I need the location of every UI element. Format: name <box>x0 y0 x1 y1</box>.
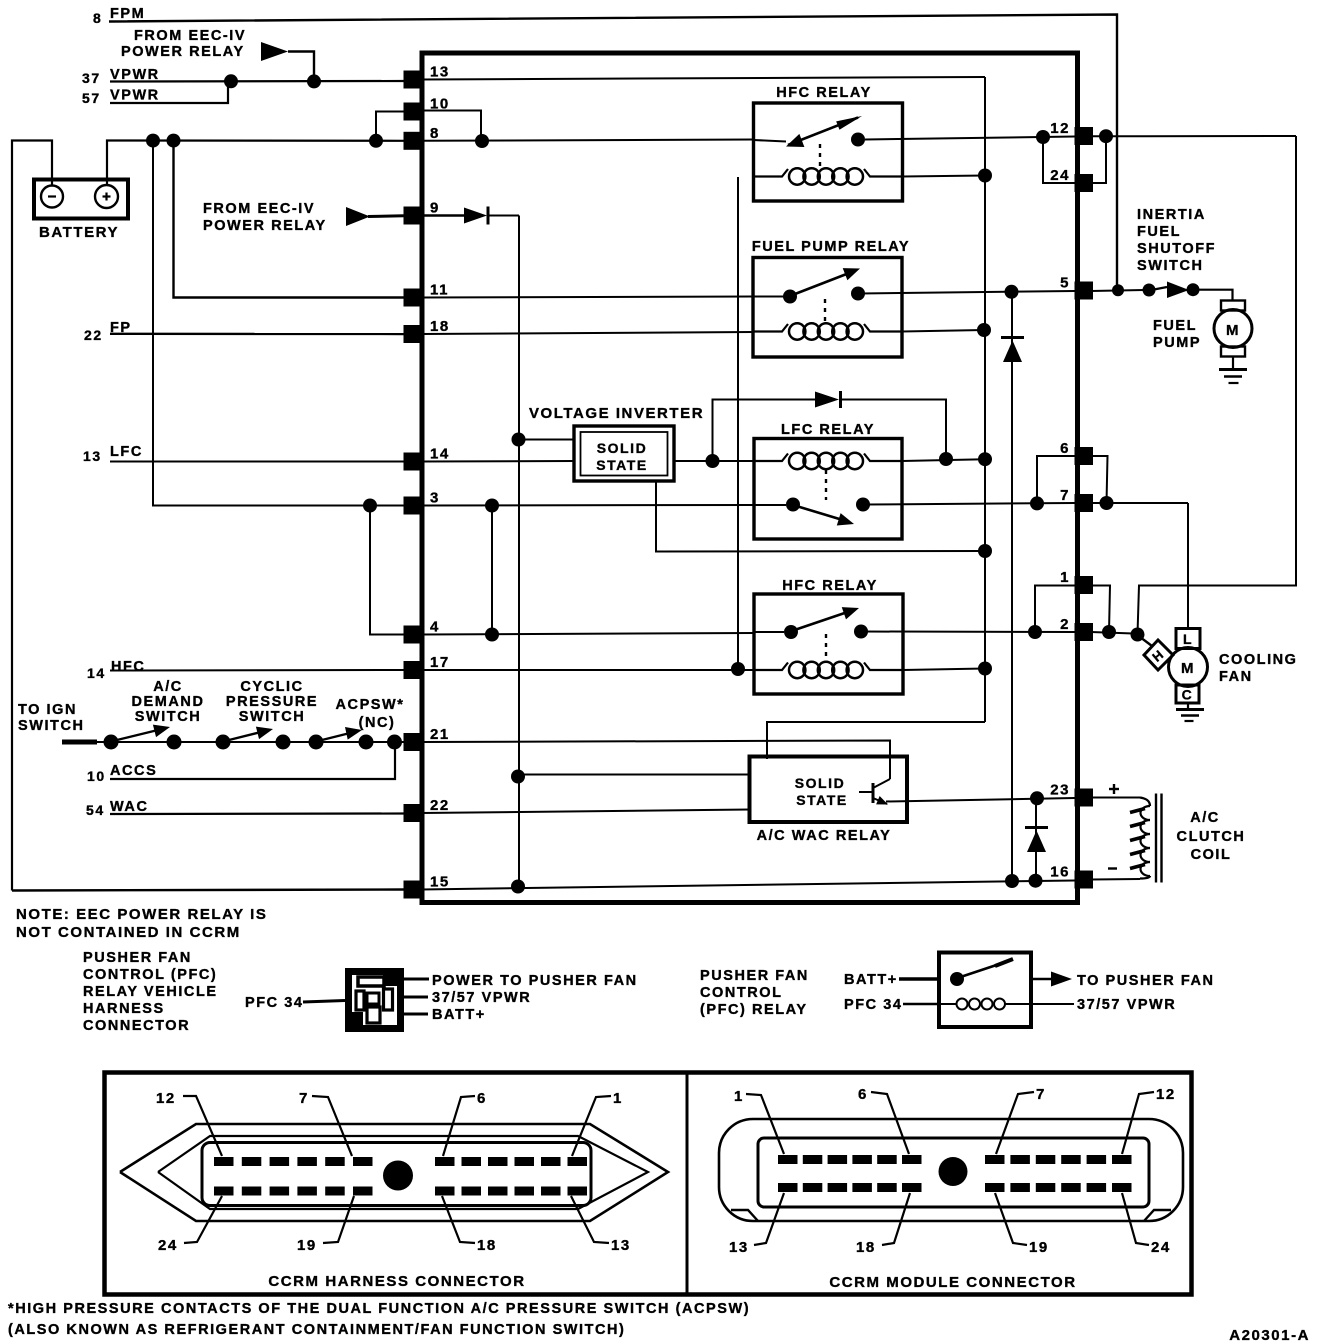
junction pin4 inside <box>485 628 499 642</box>
wire battery ground return to pin 15 <box>12 890 404 891</box>
diode CR4 (pin5 clamp) <box>1011 292 1013 881</box>
junction pin8 wire / pin10 staple <box>475 134 489 148</box>
wire pin10 staple (inside) <box>421 111 481 142</box>
pin 8 (CCRM left) <box>404 132 423 150</box>
junction pin17 / HFC coil 1 feed <box>731 662 745 676</box>
wire pin12 battery feed loop <box>1091 135 1296 137</box>
wire pin15 to pin16 ground rail <box>421 881 1075 890</box>
wire FPM <box>109 15 1117 290</box>
relay K2 switch <box>753 296 786 298</box>
pin 4 (CCRM left) <box>404 626 423 644</box>
relay K4 HFC RELAY box <box>754 594 903 694</box>
wire pin12-pin24 staple (outside) <box>1092 136 1106 183</box>
wire inverter upper input <box>519 439 575 441</box>
svg-text:(PFC) RELAY: (PFC) RELAY <box>700 1002 808 1018</box>
wire pin11 feed <box>174 141 405 298</box>
svg-text:SOLID: SOLID <box>597 440 648 456</box>
svg-text:BATT+: BATT+ <box>432 1007 486 1023</box>
wire pin17 to HFC relay coils <box>421 669 754 671</box>
svg-text:DEMAND: DEMAND <box>132 694 205 710</box>
svg-text:FUEL PUMP RELAY: FUEL PUMP RELAY <box>752 239 910 255</box>
relay K4 coil <box>754 663 788 671</box>
relay K1 coil <box>754 169 789 177</box>
connector J2 CCRM harness connector body <box>120 1124 668 1221</box>
wire pin1-pin2 staple (inside) <box>1035 586 1075 633</box>
svg-text:1: 1 <box>1060 569 1070 586</box>
svg-text:PRESSURE: PRESSURE <box>226 694 318 710</box>
svg-text:STATE: STATE <box>596 457 648 473</box>
relay K3 LFC RELAY box <box>754 439 902 540</box>
svg-text:FROM EEC-IV: FROM EEC-IV <box>134 28 246 44</box>
junction bus / pin10 staple <box>369 134 383 148</box>
svg-text:NOTE: EEC POWER RELAY IS: NOTE: EEC POWER RELAY IS <box>16 906 267 923</box>
wire pin21 to WAC relay gate <box>421 741 890 780</box>
svg-text:CONTROL: CONTROL <box>700 985 783 1001</box>
svg-text:C: C <box>1182 687 1194 703</box>
wire K3 switch in <box>754 504 786 506</box>
node solid-state feed vertical (pin 9 diode output) <box>518 216 520 887</box>
svg-text:CONNECTOR: CONNECTOR <box>83 1018 190 1034</box>
svg-text:17: 17 <box>430 654 450 671</box>
svg-text:HFC RELAY: HFC RELAY <box>776 85 872 101</box>
svg-text:24: 24 <box>1151 1239 1171 1256</box>
relay K3 coil <box>754 454 788 462</box>
svg-text:PFC 34: PFC 34 <box>844 997 902 1013</box>
svg-text:WAC: WAC <box>110 799 148 815</box>
svg-text:CYCLIC: CYCLIC <box>240 679 303 695</box>
pin 21 (CCRM left) <box>404 733 423 751</box>
pin 3 (CCRM left) <box>404 497 423 515</box>
svg-text:1: 1 <box>613 1090 623 1107</box>
svg-text:NOT CONTAINED IN CCRM: NOT CONTAINED IN CCRM <box>16 924 241 941</box>
diode CR1 (pin 9) <box>421 214 464 216</box>
svg-text:7: 7 <box>1036 1086 1046 1103</box>
svg-text:15: 15 <box>430 874 450 891</box>
pin 12 (CCRM right) <box>1075 127 1094 145</box>
wire to ign switch stub <box>62 740 97 745</box>
junction VPWR / EEC-IV relay <box>307 74 321 88</box>
svg-text:10: 10 <box>87 768 106 784</box>
wire coil common to WAC area <box>767 722 985 759</box>
wire to pusher fan <box>1031 978 1051 981</box>
junction inverter feed <box>512 433 526 447</box>
wire pin5 to inertia switch <box>1091 290 1146 291</box>
svg-text:SOLID: SOLID <box>795 775 846 791</box>
svg-text:12: 12 <box>1156 1086 1176 1103</box>
svg-text:(NC): (NC) <box>359 715 396 731</box>
svg-text:7: 7 <box>299 1090 309 1107</box>
wire inverter bottom output <box>656 481 985 552</box>
svg-text:37/57 VPWR: 37/57 VPWR <box>1077 997 1176 1013</box>
svg-text:9: 9 <box>430 200 440 217</box>
svg-text:FAN: FAN <box>1219 669 1253 685</box>
svg-text:FUEL: FUEL <box>1153 318 1197 334</box>
svg-text:HFC RELAY: HFC RELAY <box>782 578 878 594</box>
svg-text:22: 22 <box>84 327 103 343</box>
svg-text:6: 6 <box>477 1090 487 1107</box>
wire K1 coil to common <box>903 176 986 177</box>
junction bus / pin3 feed <box>146 134 160 148</box>
relay K2 coil <box>753 324 788 332</box>
svg-text:54: 54 <box>86 802 105 818</box>
wire 37/57 VPWR (harness) <box>403 996 428 999</box>
pin 14 (CCRM left) <box>404 453 423 471</box>
svg-text:A/C WAC RELAY: A/C WAC RELAY <box>757 828 892 844</box>
svg-text:4: 4 <box>430 619 440 636</box>
motor M1 FUEL PUMP <box>1221 301 1245 311</box>
relay K6 PFC relay box <box>939 953 1031 1028</box>
junction ground rail / diode CR5 <box>1029 874 1043 888</box>
wire K2 switch out to pin 5 <box>860 291 1075 294</box>
svg-text:LFC RELAY: LFC RELAY <box>781 422 875 438</box>
junction K4 coil / common <box>978 662 992 676</box>
svg-text:POWER RELAY: POWER RELAY <box>203 218 327 234</box>
connector detail divider <box>686 1073 689 1295</box>
wire pin4 feed <box>370 506 404 635</box>
pin 6 (CCRM right) <box>1075 447 1094 465</box>
pin 22 (CCRM left) <box>404 804 423 822</box>
pin 2 (CCRM right) <box>1075 623 1094 641</box>
relay K1 switch <box>754 140 787 142</box>
pin 13 (CCRM left) <box>404 71 423 89</box>
svg-text:14: 14 <box>87 665 106 681</box>
svg-text:8: 8 <box>93 10 102 26</box>
svg-text:13: 13 <box>729 1239 749 1256</box>
wire K4 coil to common <box>903 669 985 671</box>
wire pin12-pin24 staple (inside) <box>1043 137 1075 183</box>
junction K2 coil / common <box>977 323 991 337</box>
diode CR2 (across LFC relay coil) <box>713 400 816 462</box>
svg-text:2: 2 <box>1060 616 1070 633</box>
svg-text:CONTROL (PFC): CONTROL (PFC) <box>83 967 217 983</box>
svg-text:SWITCH: SWITCH <box>135 709 202 725</box>
junction FPM / pin5 wire <box>1112 284 1124 296</box>
svg-text:7: 7 <box>1060 487 1070 504</box>
wire pin18 to fuel pump relay coil <box>421 332 753 334</box>
svg-text:PUSHER FAN: PUSHER FAN <box>700 968 809 984</box>
connector detail outer box <box>105 1073 1192 1295</box>
pin 1 (CCRM right) <box>1075 576 1094 594</box>
wire 37/57 VPWR (relay) <box>1031 1003 1074 1005</box>
svg-text:22: 22 <box>430 797 450 814</box>
junction pin2 inside <box>1028 625 1042 639</box>
wire pin3-pin4 bridge (inside) <box>491 506 493 635</box>
wire pin3 feed <box>153 141 404 506</box>
battery B1 <box>34 180 128 219</box>
svg-text:6: 6 <box>858 1086 868 1103</box>
svg-text:14: 14 <box>430 446 450 463</box>
junction inverter output / diode branch <box>706 454 720 468</box>
wire pin6-pin7 staple (outside) <box>1091 456 1108 503</box>
wire pin10 staple (outside) <box>376 112 404 141</box>
connector J3 pins row B <box>778 1183 798 1192</box>
wire K2 coil to common <box>902 330 984 332</box>
svg-text:STATE: STATE <box>796 792 848 808</box>
junction ground rail / diode CR4 <box>1005 874 1019 888</box>
svg-text:SWITCH: SWITCH <box>239 709 306 725</box>
svg-text:18: 18 <box>477 1237 497 1254</box>
wire WAC output to pin 23 <box>886 798 1075 802</box>
connector J2 pins row A <box>214 1157 234 1166</box>
svg-text:ACCS: ACCS <box>110 763 157 779</box>
junction pin7 outside <box>1100 496 1114 510</box>
svg-text:HARNESS: HARNESS <box>83 1001 165 1017</box>
svg-text:21: 21 <box>430 726 450 743</box>
connector J3 CCRM module connector body <box>719 1119 1183 1221</box>
svg-text:PUSHER FAN: PUSHER FAN <box>83 950 192 966</box>
svg-text:19: 19 <box>1029 1239 1049 1256</box>
pin 7 (CCRM right) <box>1075 494 1094 512</box>
ground (fuel pump) <box>1232 357 1234 370</box>
junction diode CR2 / LFC coil output <box>939 452 953 466</box>
svg-text:37: 37 <box>82 70 101 86</box>
wire K3 switch out to pin 7 <box>866 503 1075 505</box>
svg-text:24: 24 <box>1050 167 1070 184</box>
svg-text:3: 3 <box>430 490 440 507</box>
battery B+ bus wire <box>12 141 52 891</box>
junction pin3/pin4 inside <box>485 499 499 513</box>
svg-text:TO PUSHER FAN: TO PUSHER FAN <box>1077 973 1215 989</box>
svg-text:23: 23 <box>1050 782 1070 799</box>
svg-text:18: 18 <box>856 1239 876 1256</box>
svg-text:SHUTOFF: SHUTOFF <box>1137 241 1216 257</box>
svg-text:M: M <box>1226 322 1240 339</box>
svg-text:ACPSW*: ACPSW* <box>336 697 405 713</box>
svg-text:CLUTCH: CLUTCH <box>1177 829 1246 845</box>
svg-text:RELAY VEHICLE: RELAY VEHICLE <box>83 984 218 1000</box>
wire solid-state feed to WAC relay <box>518 774 750 776</box>
junction WAC feed <box>511 770 525 784</box>
junction pin3/pin4 feed <box>363 499 377 513</box>
svg-text:12: 12 <box>1050 120 1070 137</box>
pin 18 (CCRM left) <box>404 325 423 343</box>
svg-text:PUMP: PUMP <box>1153 335 1201 351</box>
svg-text:24: 24 <box>158 1237 178 1254</box>
arrow from EEC-IV power relay (pin9) <box>346 207 370 226</box>
svg-text:VOLTAGE INVERTER: VOLTAGE INVERTER <box>529 405 704 422</box>
wire HFC coil 1 feed vertical <box>737 177 739 669</box>
svg-text:A/C: A/C <box>153 679 183 695</box>
junction ACCS / pin21 <box>387 735 402 750</box>
pin 9 (CCRM left) <box>404 207 423 225</box>
svg-text:13: 13 <box>611 1237 631 1254</box>
pin 10 (CCRM left) <box>404 103 423 121</box>
svg-text:A/C: A/C <box>1190 810 1220 826</box>
junction pin5 wire / diode CR4 <box>1005 285 1019 299</box>
connector J1 PFC vehicle harness connector <box>345 968 404 1032</box>
wire battery loop down right side <box>1138 136 1297 634</box>
inertia fuel shutoff switch S4 <box>1143 284 1156 297</box>
svg-text:SWITCH: SWITCH <box>1137 258 1204 274</box>
wire pin22 to WAC relay <box>421 810 750 814</box>
svg-text:POWER RELAY: POWER RELAY <box>121 44 245 60</box>
wire pin13 to relay coil common vertical <box>421 77 985 80</box>
relay K5 A/C WAC RELAY (solid state) box <box>750 757 908 823</box>
wire from EEC-IV arrow to VPWR bus <box>288 52 314 82</box>
svg-text:BATTERY: BATTERY <box>39 224 119 241</box>
svg-text:11: 11 <box>430 282 449 299</box>
svg-text:13: 13 <box>430 64 450 81</box>
svg-text:COOLING: COOLING <box>1219 652 1298 668</box>
svg-text:6: 6 <box>1060 440 1070 457</box>
connector J2 pins row B <box>214 1187 234 1196</box>
wire inverter output to LFC coil <box>674 460 754 462</box>
pin 24 (CCRM right) <box>1075 174 1094 192</box>
svg-text:57: 57 <box>82 90 101 106</box>
motor M2 cooling fan <box>1144 640 1173 670</box>
pin 23 (CCRM right) <box>1075 789 1094 807</box>
svg-text:FUEL: FUEL <box>1137 224 1181 240</box>
svg-text:8: 8 <box>430 125 440 142</box>
wire K1 switch out to pin 12 <box>865 137 1075 140</box>
CCRM module box <box>422 53 1078 903</box>
wire power to pusher fan <box>403 978 429 981</box>
ground (cooling fan) <box>1187 703 1189 709</box>
svg-text:CCRM HARNESS CONNECTOR: CCRM HARNESS CONNECTOR <box>268 1273 525 1290</box>
junction ground rail <box>511 880 525 894</box>
junction inverter bottom output / coil common <box>978 544 992 558</box>
svg-text:TO IGN: TO IGN <box>18 702 77 718</box>
wire pin6-pin7 staple (inside) <box>1037 456 1075 503</box>
inductor L1 A/C clutch coil <box>1140 798 1150 807</box>
voltage inverter U1 (solid state) <box>574 426 674 481</box>
svg-text:INERTIA: INERTIA <box>1137 207 1206 223</box>
connector J3 pins row A <box>778 1155 798 1164</box>
wire pin4 to HFC relay 2 switch <box>421 633 754 635</box>
svg-text:L: L <box>1183 631 1193 647</box>
junction K1 coil / common <box>978 169 992 183</box>
junction fan high / battery loop <box>1131 628 1145 642</box>
svg-text:PFC 34: PFC 34 <box>245 995 303 1011</box>
relay K1 HFC RELAY box <box>754 103 903 201</box>
pin 17 (CCRM left) <box>404 661 423 679</box>
svg-text:A20301-A: A20301-A <box>1229 1327 1310 1344</box>
wire K4 switch out to pin 2 <box>863 631 1075 634</box>
wire inertia switch to fuel pump motor <box>1198 290 1233 301</box>
pin 5 (CCRM right) <box>1075 282 1094 300</box>
wire pin2 to cooling fan high <box>1091 632 1133 634</box>
svg-text:18: 18 <box>430 318 450 335</box>
connector J2 index hole <box>383 1161 413 1191</box>
relay K6 switch <box>950 972 964 986</box>
wire pin23 to A/C clutch coil (+) <box>1091 797 1140 799</box>
relay K4 switch <box>784 625 798 639</box>
svg-text:*HIGH PRESSURE CONTACTS OF THE: *HIGH PRESSURE CONTACTS OF THE DUAL FUNC… <box>8 1301 750 1317</box>
svg-text:HFC: HFC <box>111 659 145 675</box>
svg-text:(ALSO KNOWN AS REFRIGERANT CON: (ALSO KNOWN AS REFRIGERANT CONTAINMENT/F… <box>8 1322 625 1338</box>
svg-text:M: M <box>1181 660 1195 677</box>
junction pin12 outside <box>1099 129 1113 143</box>
junction pin7 inside <box>1030 496 1044 510</box>
wire cooling fan low feed <box>1187 503 1189 629</box>
connector J3 index hole <box>939 1157 968 1186</box>
relay K6 coil <box>957 999 968 1010</box>
svg-text:FPM: FPM <box>110 6 145 22</box>
svg-text:FROM EEC-IV: FROM EEC-IV <box>203 201 315 217</box>
svg-text:POWER TO PUSHER FAN: POWER TO PUSHER FAN <box>432 973 638 989</box>
diode CR5 (A/C clutch clamp) <box>1035 798 1037 880</box>
wire pin11 to fuel pump relay <box>421 297 753 298</box>
svg-text:13: 13 <box>83 448 102 464</box>
node relay coil common vertical <box>984 77 986 722</box>
svg-text:12: 12 <box>156 1090 176 1107</box>
svg-text:CCRM MODULE CONNECTOR: CCRM MODULE CONNECTOR <box>829 1274 1076 1291</box>
junction pin12 inside <box>1036 130 1050 144</box>
wire pin3 to LFC relay switch <box>421 504 754 507</box>
wire pin7 to cooling fan low <box>1091 502 1188 504</box>
wire K3 coil output to common <box>902 459 985 461</box>
junction bus / pin11 feed <box>167 134 181 148</box>
svg-text:1: 1 <box>734 1088 744 1105</box>
junction pin23 wire / diode CR5 <box>1030 791 1044 805</box>
transistor Q1 (WAC output) <box>872 783 875 803</box>
wire pin14 to voltage inverter <box>421 460 574 463</box>
svg-text:SWITCH: SWITCH <box>18 718 85 734</box>
svg-text:VPWR: VPWR <box>110 88 160 104</box>
svg-text:19: 19 <box>297 1237 317 1254</box>
relay K2 FUEL PUMP RELAY box <box>753 258 902 358</box>
wire pin1-pin2 staple (outside) <box>1092 586 1110 633</box>
junction VPWR 37/57 <box>224 74 238 88</box>
wire BATT+ (harness) <box>403 1013 428 1016</box>
svg-text:COIL: COIL <box>1191 847 1232 863</box>
junction K3 coil output / common <box>978 452 992 466</box>
svg-text:37/57 VPWR: 37/57 VPWR <box>432 990 531 1006</box>
wire pin8 to HFC relay K1 <box>421 140 753 141</box>
svg-text:LFC: LFC <box>110 444 143 460</box>
junction pin2 outside <box>1102 625 1116 639</box>
pin 15 (CCRM left) <box>404 881 423 899</box>
pin 16 (CCRM right) <box>1075 871 1094 889</box>
pin 11 (CCRM left) <box>404 289 423 307</box>
svg-text:BATT+: BATT+ <box>844 972 898 988</box>
svg-text:5: 5 <box>1060 275 1070 292</box>
arrow from EEC-IV power relay (top) <box>261 42 288 61</box>
svg-text:16: 16 <box>1050 864 1070 881</box>
wire A/C clutch coil (-) to pin16 <box>1091 878 1140 881</box>
relay K3 switch <box>786 498 800 512</box>
